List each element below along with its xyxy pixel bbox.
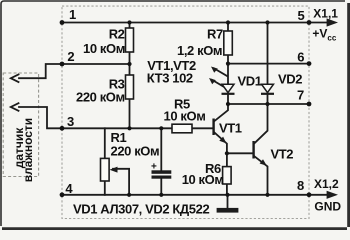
svg-text:R7: R7 xyxy=(207,27,223,42)
svg-text:X1,2: X1,2 xyxy=(314,177,339,191)
svg-text:VT2: VT2 xyxy=(271,147,294,162)
svg-text:КТ3 102: КТ3 102 xyxy=(147,70,193,85)
svg-text:1: 1 xyxy=(69,7,76,22)
svg-text:8: 8 xyxy=(297,178,304,193)
svg-text:R2: R2 xyxy=(109,26,125,41)
svg-text:VD1: VD1 xyxy=(238,74,262,89)
svg-text:2: 2 xyxy=(67,49,74,64)
svg-text:220 кОм: 220 кОм xyxy=(111,144,160,159)
svg-text:10 кОм: 10 кОм xyxy=(182,172,224,187)
svg-text:10 кОм: 10 кОм xyxy=(164,108,206,123)
svg-text:4: 4 xyxy=(65,181,73,196)
svg-text:220 кОм: 220 кОм xyxy=(76,90,125,105)
svg-text:VD1 АЛ307, VD2 КД522: VD1 АЛ307, VD2 КД522 xyxy=(73,202,209,217)
svg-text:3: 3 xyxy=(67,114,74,129)
svg-text:влажности: влажности xyxy=(21,118,35,182)
svg-text:VT1: VT1 xyxy=(219,121,242,136)
svg-text:5: 5 xyxy=(298,8,305,23)
svg-text:10 кОм: 10 кОм xyxy=(83,41,125,56)
svg-text:+: + xyxy=(151,162,157,173)
svg-text:VD2: VD2 xyxy=(278,72,302,87)
svg-text:6: 6 xyxy=(297,49,304,64)
svg-text:X1,1: X1,1 xyxy=(313,7,338,21)
svg-text:1,2 кОм: 1,2 кОм xyxy=(177,43,222,58)
svg-text:7: 7 xyxy=(297,88,304,103)
svg-text:GND: GND xyxy=(314,199,341,213)
